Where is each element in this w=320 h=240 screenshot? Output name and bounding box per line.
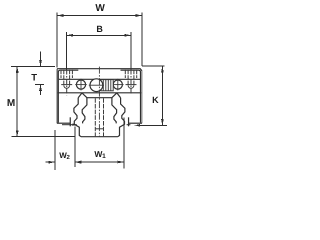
end seal lip right side [112,98,117,124]
arrowhead W2 right (outside, points left) [75,161,82,164]
ball return bore right (circle with crosshair) [113,80,122,89]
left hole thread hidden lines [63,70,65,86]
left hole depth tick [61,84,72,86]
end seal bottom edge right [127,124,131,126]
arrowhead T upper (points down) [39,60,42,67]
left hole centerline [66,70,68,96]
right hole drill bottom [128,85,134,88]
dim W dimension line [57,15,142,17]
block body top edge [57,69,142,71]
right hole centerline [130,70,132,95]
rail left side profile [74,98,81,137]
arrowhead B right [125,34,132,37]
right hole depth tick [126,84,137,86]
arrowhead M top [16,66,19,73]
dim B right extension line [130,32,132,70]
dim M bottom reference line (rail bottom) [12,136,75,138]
dim K top reference line [142,65,164,67]
dim W left extension line [56,12,58,67]
end seal lip over rail top [82,93,117,98]
face line upper [59,78,140,80]
svg-text:T: T [31,72,37,83]
dim T lower arrow tail [40,84,42,95]
arrowhead W left [57,14,64,17]
dim W1 right extension line [123,118,125,169]
block body right edge [141,71,143,123]
left leg inner edge [69,117,71,126]
dim W2 left outside arrow tail [46,161,55,163]
rail right side profile [118,98,125,137]
left hole counterbore hidden lines [60,70,62,78]
svg-text:K: K [152,95,159,105]
grease nipple flange circle [90,79,103,92]
grease nipple body (threaded section) [101,80,113,91]
rail bolt hole hidden lines [94,98,96,136]
svg-text:B: B [96,24,103,34]
face line lower [58,92,142,94]
arrowhead M bottom [16,130,19,137]
dim T upper arrow tail [40,51,42,66]
end seal bottom edge left [62,124,77,126]
dim W1 dimension line [75,161,124,163]
end seal lip left side [82,98,87,124]
arrowhead B left [67,34,74,37]
arrowhead seal-bottom leader left (points right) [72,124,77,126]
top reference line (block top, for M and T) [11,65,55,67]
arrowhead K top [161,66,164,73]
arrowhead block-bottom leader (points left) [135,124,141,127]
arrowhead W1 right [118,161,125,164]
left hole drill bottom [64,85,70,88]
rail top right chamfer [117,93,121,98]
dim K dimension line [161,66,163,125]
right leg inner edge [128,117,130,126]
right hole thread hidden lines [127,70,129,86]
arrowhead K bottom [161,119,164,126]
right mounting hole [125,70,136,95]
ball return bore left (circle with crosshair) [76,80,85,89]
end plate outline right [139,70,141,122]
arrowhead W2 left (outside, points right) [48,161,55,164]
block body left edge [56,69,58,124]
rail bottom edge [81,136,118,138]
rail bolt counterbore bottom [95,128,103,130]
right hole counterbore hidden lines [124,70,126,78]
rail top left chamfer [78,93,82,98]
dim W right extension line [141,12,143,66]
end plate top edge right segment [121,69,139,71]
dim B dimension line [67,34,131,36]
end plate outline left [58,70,60,122]
dim K bottom reference line (block bottom) [138,124,168,126]
dim W2 left extension line [54,130,56,170]
dim M dimension line [16,66,18,137]
grease nipple horizontal centerline [89,84,104,86]
right leg bottom edge [129,122,142,124]
end plate top edge left segment [60,69,78,71]
dim W1 left extension line [74,127,76,167]
svg-text:W: W [95,3,105,14]
left mounting hole [61,70,72,96]
arrowhead W right [136,14,143,17]
view vertical centerline [98,67,100,137]
arrowhead T lower (points up) [39,84,42,91]
dim B left extension line [66,32,68,70]
arrowhead W1 left [75,161,82,164]
svg-text:M: M [7,98,15,109]
left leg bottom edge [57,122,70,124]
dim T lower reference line (rail top) [35,83,44,85]
